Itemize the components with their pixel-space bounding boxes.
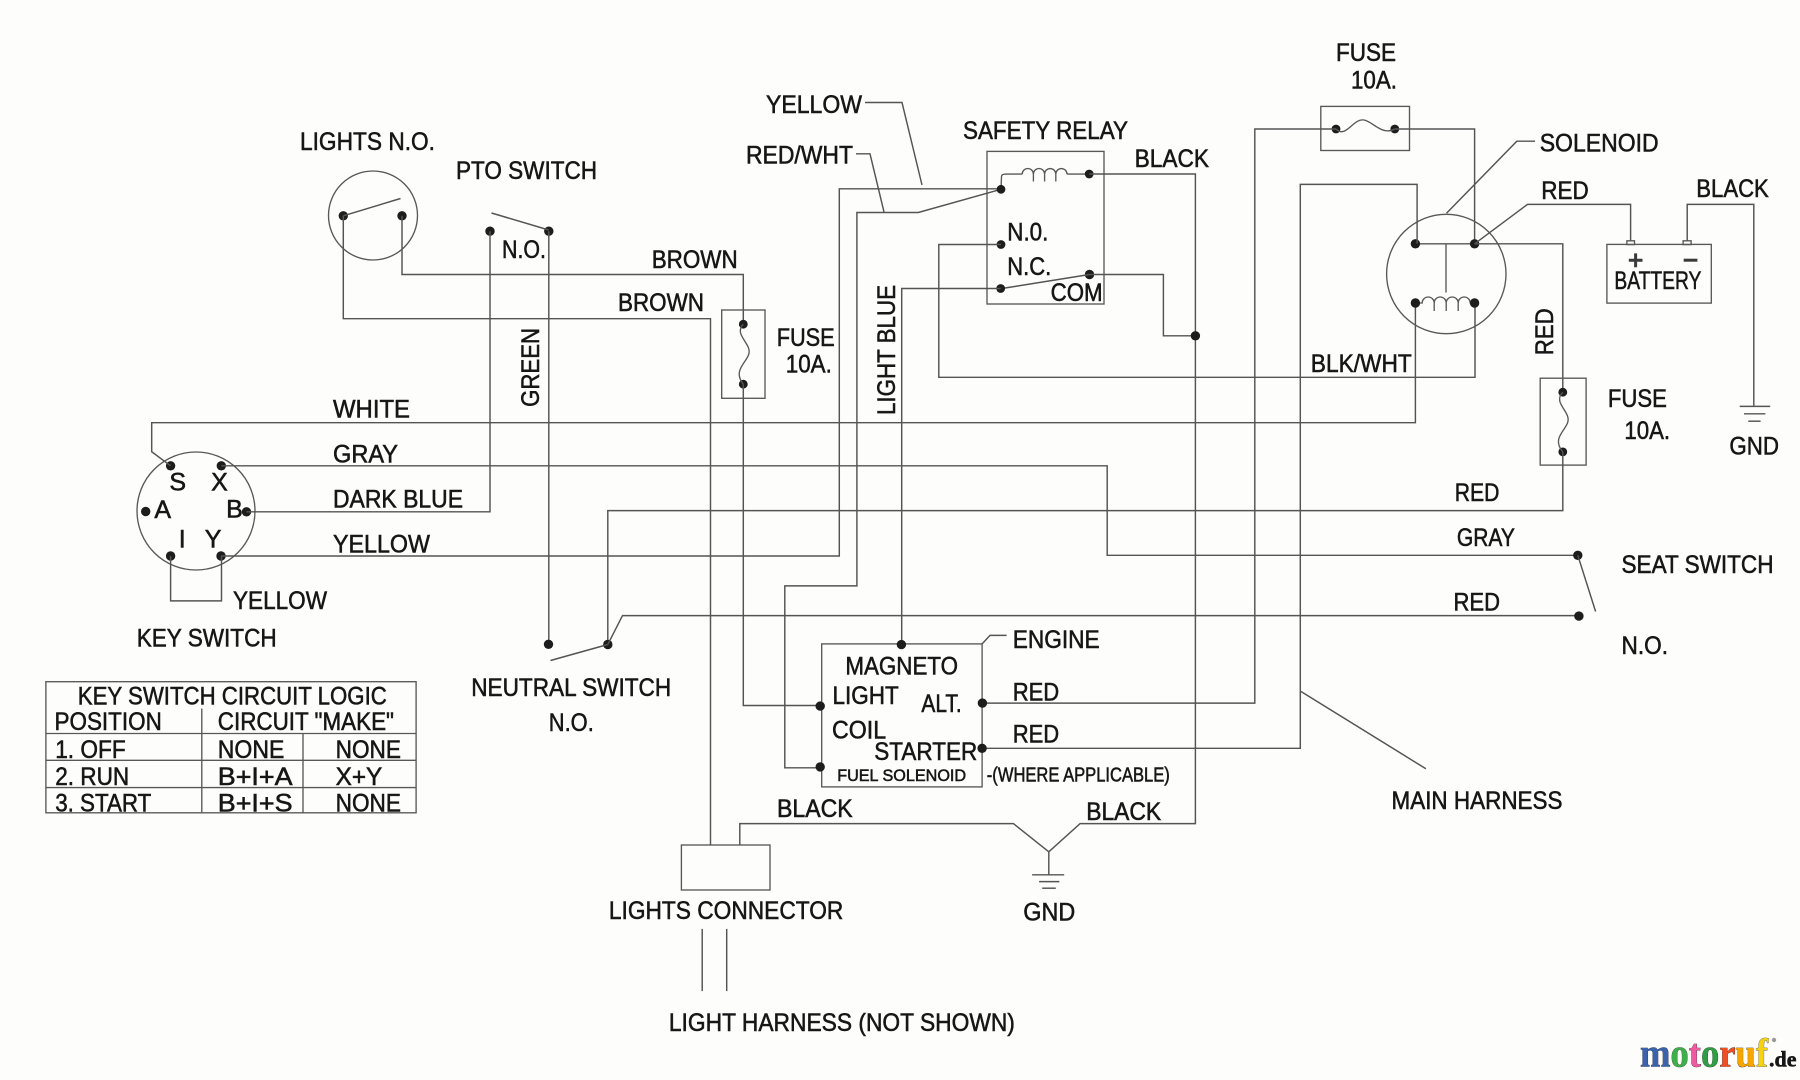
svg-text:YELLOW: YELLOW [333,531,430,559]
safety relay U1 [987,151,1104,304]
svg-text:SAFETY RELAY: SAFETY RELAY [963,117,1128,145]
engine terminal LIGHT COIL [816,701,825,710]
svg-text:MAGNETO: MAGNETO [845,652,958,680]
ground symbol bottom [1032,852,1064,888]
svg-text:RED: RED [1531,308,1559,355]
svg-text:N.C.: N.C. [1007,253,1051,281]
svg-text:-(WHERE APPLICABLE): -(WHERE APPLICABLE) [987,765,1170,787]
wire LIGHT BLUE: relay N.C. to engine magneto [902,289,1001,645]
engine box [822,644,982,787]
engine terminal ALT [978,698,987,707]
svg-text:BLACK: BLACK [1696,175,1769,203]
svg-text:STARTER: STARTER [874,738,977,766]
svg-text:A: A [154,496,171,524]
svg-text:BLACK: BLACK [1086,798,1161,826]
junction node on black vertical [1191,331,1200,340]
wire DARK BLUE: key B to PTO switch left [247,231,491,512]
svg-text:GRAY: GRAY [1457,524,1515,552]
wire GRAY: key X to seat switch top [221,466,1578,556]
svg-text:GRAY: GRAY [333,441,398,469]
svg-text:DARK BLUE: DARK BLUE [333,486,463,514]
svg-text:FUEL SOLENOID: FUEL SOLENOID [837,766,966,785]
svg-text:MAIN HARNESS: MAIN HARNESS [1392,787,1563,815]
svg-text:GND: GND [1729,432,1779,460]
svg-text:WHITE: WHITE [333,396,410,424]
wire COM to black vertical junction [1090,275,1196,336]
solenoid coil [1415,297,1474,303]
svg-text:B+I+A: B+I+A [218,763,293,791]
light harness stub right [726,929,728,991]
svg-text:motoruf: motoruf [1640,1031,1769,1076]
svg-text:N.O.: N.O. [502,236,546,264]
svg-text:RED: RED [1541,177,1588,205]
wire STARTER red: engine to solenoid upper-left [982,184,1417,748]
svg-text:1. OFF: 1. OFF [55,736,126,764]
relay coil [1001,174,1022,189]
svg-text:N.O.: N.O. [1622,632,1669,660]
svg-text:NONE: NONE [218,736,284,764]
wire BROWN: lights switch right to fuse [402,216,743,324]
svg-text:KEY SWITCH CIRCUIT LOGIC: KEY SWITCH CIRCUIT LOGIC [78,682,387,710]
battery minus sign [1684,259,1698,262]
svg-text:BROWN: BROWN [652,246,738,274]
wire RED: neutral switch to seat switch bottom [608,616,1579,645]
svg-text:NONE: NONE [336,736,401,764]
motoruf.de logo [1640,1031,1797,1076]
fuse F3 10A right [1540,378,1586,465]
svg-text:BATTERY: BATTERY [1614,267,1701,295]
wire BLACK battery to ground [1687,204,1754,405]
switch PTO [485,213,553,236]
svg-text:RED: RED [1455,479,1500,507]
wire BLK/WHT: relay N.O. to solenoid lower-right [939,245,1475,378]
engine terminal FUEL SOLENOID [816,762,825,771]
svg-text:Y: Y [205,525,222,553]
svg-text:N.O.: N.O. [549,709,594,737]
svg-text:LIGHT: LIGHT [833,682,899,710]
svg-text:RED/WHT: RED/WHT [746,142,853,170]
wire loop I to Y [171,556,222,601]
svg-text:YELLOW: YELLOW [766,91,862,119]
seat switch [1573,551,1595,621]
svg-text:CIRCUIT "MAKE": CIRCUIT "MAKE" [218,708,394,736]
wire fuse F2 right to solenoid upper-right [1395,129,1475,244]
svg-text:N.0.: N.0. [1007,218,1048,246]
key switch [137,452,255,570]
engine terminal MAGNETO [897,640,906,649]
wire YELLOW: key Y to safety relay coil [221,189,1001,556]
wire RED/WHT: relay armature to engine fuel solenoid [785,189,1001,768]
wire solenoid upper-right to fuse F3 [1475,244,1563,392]
svg-text:KEY SWITCH: KEY SWITCH [137,625,277,653]
solenoid top bar [1415,243,1474,245]
svg-text:10A.: 10A. [1351,67,1397,95]
svg-text:POSITION: POSITION [55,708,162,736]
wire RED: fuse F3 bottom to neutral switch right [608,452,1563,645]
battery [1607,241,1711,303]
svg-text:FUSE: FUSE [1608,385,1667,413]
svg-text:NEUTRAL SWITCH: NEUTRAL SWITCH [471,674,671,702]
svg-text:SEAT SWITCH: SEAT SWITCH [1622,551,1774,579]
wire BLACK: relay coil to ground [1049,174,1196,852]
wire GREEN: PTO right to neutral switch left [548,231,550,644]
relay blade N.C. to COM [1005,275,1090,289]
svg-text:SOLENOID: SOLENOID [1540,129,1659,157]
key switch circuit logic table [46,682,416,813]
svg-text:B+I+S: B+I+S [218,790,293,818]
svg-text:2. RUN: 2. RUN [55,763,129,791]
battery plus sign [1629,253,1643,267]
relay terminal COM [1085,270,1094,279]
wire BROWN: lights switch left to lights connector [343,216,710,845]
wire fuse F1 bottom to engine LIGHT COIL [743,384,820,705]
svg-text:FUSE: FUSE [777,324,835,352]
svg-text:LIGHTS CONNECTOR: LIGHTS CONNECTOR [609,897,843,925]
svg-text:LIGHT HARNESS (NOT SHOWN): LIGHT HARNESS (NOT SHOWN) [669,1009,1015,1037]
wire RED solenoid to battery plus [1475,204,1631,243]
switch LIGHTS N.O. [329,171,418,260]
engine terminal STARTER [977,744,986,753]
fuse F1 10A [722,310,765,398]
svg-text:GND: GND [1023,899,1075,927]
svg-text:10A.: 10A. [786,351,832,379]
svg-text:RED: RED [1454,588,1501,616]
light harness stub left [701,929,703,991]
svg-text:BLACK: BLACK [1135,145,1210,173]
wire BLACK: lights connector to ground [740,824,1049,852]
wire fuse F2 left to engine ALT [982,129,1336,703]
relay terminal N.O. [997,240,1006,249]
svg-text:FUSE: FUSE [1336,39,1396,67]
svg-text:BLK/WHT: BLK/WHT [1311,350,1412,378]
ground symbol right [1740,406,1771,421]
svg-text:I: I [179,525,186,553]
svg-text:RED: RED [1013,679,1059,707]
svg-text:BROWN: BROWN [618,289,704,317]
svg-text:BLACK: BLACK [777,795,853,823]
wire WHITE: key S to solenoid lower-left [152,303,1416,466]
svg-text:LIGHTS N.O.: LIGHTS N.O. [300,128,435,156]
svg-text:X+Y: X+Y [336,763,383,791]
neutral switch [544,640,613,661]
svg-text:COM: COM [1051,279,1103,307]
svg-text:RED: RED [1013,721,1059,749]
svg-text:B: B [226,495,243,523]
svg-text:3. START: 3. START [55,790,151,818]
svg-text:S: S [169,469,186,497]
svg-text:.de: .de [1769,1047,1797,1072]
svg-text:X: X [211,469,228,497]
solenoid [1387,214,1506,333]
svg-text:ENGINE: ENGINE [1013,626,1100,654]
svg-text:NONE: NONE [336,790,401,818]
svg-text:PTO SWITCH: PTO SWITCH [456,157,597,185]
svg-text:10A.: 10A. [1624,417,1670,445]
relay terminal N.C. [996,284,1005,293]
svg-text:YELLOW: YELLOW [233,587,327,615]
svg-text:ALT.: ALT. [921,690,961,718]
lights connector box [681,845,770,890]
fuse F2 10A top [1321,106,1410,150]
svg-text:LIGHT BLUE: LIGHT BLUE [873,285,901,415]
svg-text:GREEN: GREEN [517,328,545,407]
